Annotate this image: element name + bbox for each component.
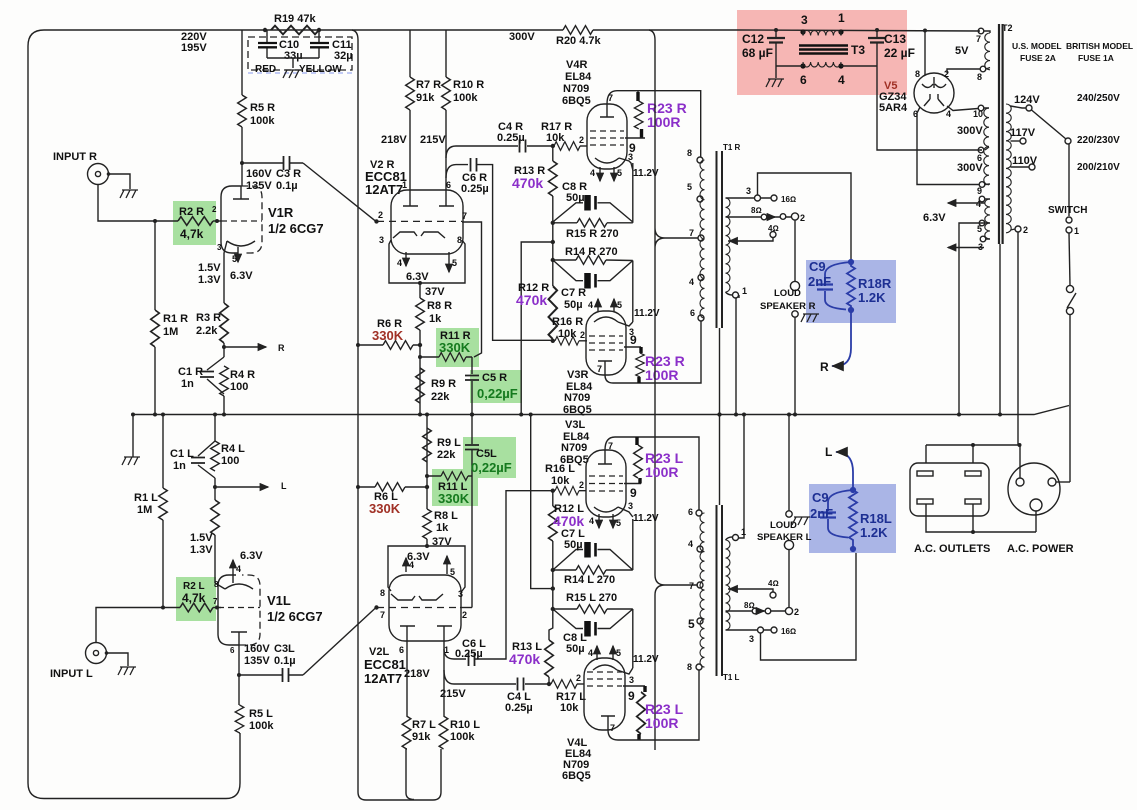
T1L primary terminals — [696, 510, 702, 516]
V1L heater pin4 arrow up — [232, 560, 234, 583]
arrows between L — [758, 610, 764, 612]
arrows between — [768, 216, 775, 218]
svg-text:1M: 1M — [163, 326, 178, 338]
svg-text:6.3V: 6.3V — [230, 270, 253, 282]
node dot R19 left — [263, 28, 267, 32]
svg-text:N709: N709 — [564, 392, 590, 404]
svg-text:330K: 330K — [372, 328, 404, 343]
svg-text:C3 R: C3 R — [276, 168, 301, 180]
svg-text:6: 6 — [688, 507, 693, 517]
highlight box green R11L — [432, 469, 478, 506]
T1R primary coil — [700, 160, 705, 318]
wire R7R column — [409, 30, 411, 190]
svg-text:1/2 6CG7: 1/2 6CG7 — [267, 609, 323, 624]
node dot R junction — [222, 345, 226, 349]
svg-text:6.3V: 6.3V — [406, 271, 429, 283]
svg-text:C12: C12 — [742, 32, 764, 46]
wire C12 to pin6 + ground — [776, 66, 803, 78]
ground symbol speaker L — [792, 517, 810, 525]
capacitor C4L 0.25u — [518, 678, 524, 691]
node dot jack right — [107, 172, 111, 176]
svg-text:6BQ5: 6BQ5 — [563, 404, 592, 416]
wire 8ohm row — [726, 216, 792, 218]
highlight box blue C9/R18R right channel — [806, 260, 896, 323]
wire riser pin7 to R11R/C5R — [462, 222, 482, 357]
svg-text:5: 5 — [977, 224, 982, 234]
ground symbol input L — [118, 667, 136, 675]
wire 8ohm row L — [726, 610, 786, 612]
node dot bus C5L — [470, 413, 474, 417]
svg-text:195V: 195V — [181, 42, 207, 54]
svg-text:4: 4 — [838, 73, 845, 87]
resistor R23R 100R (V3R) — [636, 353, 645, 377]
outer border left: top rail, left border, bottom border — [28, 30, 242, 799]
svg-text:6: 6 — [230, 646, 235, 655]
V4L grids dashed — [587, 672, 622, 686]
resistor R10L 100k — [439, 716, 448, 749]
node dot y242 — [551, 240, 555, 244]
V2L cathode box above — [388, 546, 465, 591]
bowtie1L C8L diagonals — [553, 609, 633, 629]
node dot bus 719 — [718, 413, 722, 417]
svg-text:R3 R: R3 R — [196, 312, 221, 324]
circle 4ohm L — [770, 592, 776, 598]
wire jog to x521 — [521, 242, 553, 415]
wire pin9 V4R — [625, 137, 645, 139]
wire 4ohm tap L — [728, 589, 773, 592]
svg-text:2: 2 — [579, 480, 584, 490]
svg-text:4Ω: 4Ω — [768, 579, 779, 588]
wire cathode to R3L column — [214, 535, 216, 583]
svg-text:4: 4 — [976, 199, 981, 209]
node dots on rail in pink box — [774, 28, 778, 32]
node R23R top on rail — [637, 91, 639, 92]
resistor R9R 22k — [416, 368, 425, 403]
V2L plate right — [437, 626, 452, 641]
capacitor C10 33u — [266, 30, 268, 58]
svg-text:110V: 110V — [1012, 155, 1038, 167]
T1L primary coil — [700, 513, 705, 667]
wire R12L top to R16L row — [552, 491, 554, 506]
wire R11R row — [420, 356, 472, 358]
svg-text:16Ω: 16Ω — [781, 195, 796, 204]
svg-text:4,7k: 4,7k — [182, 591, 206, 605]
wire R13L to bow1L — [549, 609, 553, 640]
svg-text:11.2V: 11.2V — [633, 513, 659, 524]
speaker R ground terminal — [792, 311, 798, 317]
V2R plate left — [403, 190, 418, 206]
svg-text:R9 L: R9 L — [437, 437, 461, 449]
svg-text:R10 L: R10 L — [450, 719, 480, 731]
svg-text:6.3V: 6.3V — [240, 550, 263, 562]
bowtie2L C7L diagonals — [553, 550, 633, 571]
wire R3L to junction — [214, 478, 216, 500]
svg-text:8: 8 — [687, 662, 692, 672]
svg-text:160V: 160V — [246, 168, 272, 180]
svg-text:R15 L 270: R15 L 270 — [566, 592, 617, 604]
blue dashed underline — [248, 72, 352, 74]
wire V4R pin3 riser — [632, 163, 634, 223]
svg-text:C7 R: C7 R — [561, 287, 586, 299]
V2R plate right — [439, 190, 454, 206]
svg-text:4,7k: 4,7k — [180, 227, 204, 241]
node dot C4L/R17L junction — [547, 682, 551, 686]
tube V2L envelope — [389, 575, 461, 641]
svg-text:N709: N709 — [561, 442, 587, 454]
svg-text:220/230V: 220/230V — [1077, 135, 1120, 146]
svg-text:7: 7 — [380, 610, 385, 620]
svg-text:2: 2 — [378, 210, 383, 220]
heater arrow pin3 — [948, 247, 984, 249]
svg-text:R2 R: R2 R — [179, 206, 204, 218]
resistor R4L 100 — [211, 441, 220, 471]
resistor R4R 100 — [220, 366, 229, 396]
svg-text:6: 6 — [446, 180, 451, 190]
svg-text:0.1µ: 0.1µ — [276, 180, 298, 192]
svg-text:C1 R: C1 R — [178, 366, 203, 378]
svg-text:1n: 1n — [181, 378, 194, 390]
svg-text:3: 3 — [379, 235, 384, 245]
svg-text:7: 7 — [597, 364, 602, 374]
node dot R19 right — [317, 28, 321, 32]
svg-text:5V: 5V — [955, 45, 969, 57]
AC power connector circle — [1008, 463, 1060, 515]
wire R10R column — [445, 30, 447, 190]
svg-text:135V: 135V — [244, 655, 270, 667]
svg-text:R18L: R18L — [860, 511, 892, 526]
V2R cathode box — [389, 240, 465, 283]
svg-text:100: 100 — [221, 455, 239, 467]
V4R grids dashed — [590, 131, 624, 145]
svg-text:C9: C9 — [812, 490, 829, 505]
wire input L signal — [96, 608, 180, 643]
svg-text:100: 100 — [230, 381, 248, 393]
resistor R2R 4.7k — [178, 217, 213, 226]
wire R8L to node N2 — [426, 415, 428, 510]
resistor R18R 1.2K — [847, 262, 855, 310]
wire diagonal C3L to V2L grid — [303, 608, 376, 676]
resistor R17L 10k — [551, 680, 577, 689]
capacitor C1L 1n with slants — [198, 441, 215, 478]
V3L cathode arc bottom — [594, 507, 618, 512]
node dot bus 744 — [742, 413, 746, 417]
wire GZ34 pin2 to xfmr pin8 — [947, 69, 980, 73]
V1R cathode pin3 lead — [224, 241, 227, 253]
highlight box green R2L — [176, 577, 216, 621]
V1L cathode arc — [225, 584, 253, 589]
capacitor C11 32u — [318, 30, 320, 58]
svg-text:12AT7: 12AT7 — [365, 182, 403, 197]
svg-text:7: 7 — [610, 723, 615, 733]
node dot y588 — [551, 586, 555, 590]
AC power right pin to switch line — [1056, 481, 1070, 483]
node dot bottom blue — [849, 308, 853, 312]
T3 pin3/1 stubs to rail — [803, 30, 841, 36]
capacitor C7R 50u electrolytic — [584, 273, 591, 289]
V2L plate left — [400, 626, 415, 641]
svg-text:6BQ5: 6BQ5 — [562, 770, 591, 782]
svg-text:R: R — [820, 360, 829, 374]
svg-text:6: 6 — [399, 645, 404, 655]
svg-text:2.2k: 2.2k — [196, 325, 218, 337]
svg-text:9: 9 — [977, 186, 982, 196]
svg-text:12AT7: 12AT7 — [364, 671, 402, 686]
tap 117V — [1011, 140, 1021, 142]
svg-text:C1 L: C1 L — [170, 448, 194, 460]
svg-text:R7 R: R7 R — [416, 79, 441, 91]
svg-text:5: 5 — [617, 300, 622, 310]
wire 4ohm tap — [728, 238, 773, 241]
svg-text:2nF: 2nF — [808, 274, 831, 289]
svg-text:SWITCH: SWITCH — [1048, 205, 1087, 216]
V3R heater arrows up — [597, 299, 599, 312]
svg-text:FUSE 2A: FUSE 2A — [1020, 53, 1056, 63]
circles 8ohm row — [761, 214, 767, 220]
svg-text:135V: 135V — [246, 180, 272, 192]
svg-text:4: 4 — [236, 564, 241, 574]
V3L plate wire to T1L pin6 — [605, 437, 699, 510]
GZ34 filament arcs — [922, 77, 946, 88]
svg-text:C3L: C3L — [274, 643, 295, 655]
svg-text:218V: 218V — [404, 668, 430, 680]
node dot bus core — [998, 413, 1002, 417]
switch symbol — [1066, 285, 1073, 292]
svg-text:0,22µF: 0,22µF — [471, 460, 512, 475]
svg-text:3: 3 — [628, 152, 633, 162]
transformer T3 terminals — [800, 29, 805, 34]
node dot bus speaker R — [793, 413, 797, 417]
capacitor C12 68uF — [775, 30, 777, 66]
svg-text:100k: 100k — [249, 720, 274, 732]
svg-text:2: 2 — [800, 213, 805, 223]
svg-text:300V: 300V — [957, 125, 983, 137]
V4R cathode arc — [595, 158, 619, 163]
circle 16ohm terminal — [771, 195, 777, 201]
svg-text:240/250V: 240/250V — [1077, 93, 1120, 104]
svg-text:100k: 100k — [250, 115, 275, 127]
capacitor C1R 1n with slants — [207, 357, 224, 394]
node dot bus speaker L — [787, 413, 791, 417]
svg-text:470k: 470k — [516, 292, 547, 308]
resistor R6L 330K — [375, 483, 405, 492]
svg-text:1k: 1k — [429, 313, 442, 325]
circle tap3 L — [758, 627, 764, 633]
svg-text:7: 7 — [689, 581, 694, 591]
bowtie2 C7R diagonals — [553, 260, 633, 281]
svg-text:2: 2 — [580, 330, 585, 340]
svg-text:7: 7 — [213, 597, 218, 606]
svg-text:10k: 10k — [560, 702, 579, 714]
resistor R13R 470k — [552, 146, 554, 161]
svg-text:V3R: V3R — [567, 369, 588, 381]
T1L core — [717, 505, 723, 676]
svg-text:16Ω: 16Ω — [781, 627, 796, 636]
svg-text:V4R: V4R — [566, 59, 587, 71]
resistor R7L 91k — [402, 716, 411, 749]
svg-text:8Ω: 8Ω — [751, 206, 762, 215]
node dot 1019 y445 — [1018, 443, 1022, 447]
resistor R13L 470k — [548, 677, 550, 684]
V1L grid dashed — [218, 607, 260, 609]
svg-text:N709: N709 — [563, 83, 589, 95]
wire box to R8R — [419, 283, 421, 298]
svg-text:C9: C9 — [809, 259, 826, 274]
AC outlets box — [910, 463, 989, 516]
tube V1R envelope left solid — [221, 186, 241, 253]
resistor R11R 330K — [439, 353, 466, 362]
T2 primary terminals — [978, 28, 984, 34]
svg-text:160V: 160V — [244, 643, 270, 655]
svg-text:11.2V: 11.2V — [634, 308, 660, 319]
svg-text:470k: 470k — [553, 513, 584, 529]
node dot 973 y532 — [971, 530, 975, 534]
wire 16ohm tap row — [726, 197, 772, 199]
bowtie1 C8R/R15R left diag — [553, 203, 633, 222]
svg-text:470k: 470k — [509, 651, 540, 667]
resistor R23R 100R (V4R) — [634, 101, 643, 129]
wire speaker gnd to bus — [794, 317, 796, 415]
svg-text:6BQ5: 6BQ5 — [562, 95, 591, 107]
svg-text:215V: 215V — [420, 134, 446, 146]
svg-text:10k: 10k — [551, 475, 570, 487]
wire GZ34 pin4 to pin10 row — [947, 106, 978, 111]
node dot R11L left — [425, 474, 429, 478]
svg-text:R4 R: R4 R — [230, 369, 255, 381]
svg-text:1: 1 — [402, 180, 407, 190]
svg-text:50µ: 50µ — [564, 299, 583, 311]
svg-text:0.1µ: 0.1µ — [274, 655, 296, 667]
wire C6R from anode6 — [446, 165, 553, 341]
svg-text:8: 8 — [977, 72, 982, 82]
capacitor C6R 0.25u — [471, 158, 477, 172]
node dot bus x521 — [519, 413, 523, 417]
R23L V3L thick leads — [637, 437, 640, 484]
svg-text:LOUD: LOUD — [774, 288, 801, 299]
wire V4L pin3 riser — [632, 609, 634, 668]
svg-text:6BQ5: 6BQ5 — [560, 454, 589, 466]
svg-text:1: 1 — [742, 286, 747, 296]
node dot V1L grid pin7 — [215, 606, 219, 610]
svg-text:V1L: V1L — [267, 593, 291, 608]
circle 4ohm — [770, 232, 776, 238]
capacitor C6L 0.25u — [469, 653, 475, 667]
speaker L ground terminal — [786, 511, 792, 517]
V1L plate — [231, 632, 247, 645]
R23R V4R thick leads — [638, 92, 642, 139]
svg-text:117V: 117V — [1010, 127, 1036, 139]
svg-text:R18R: R18R — [858, 276, 892, 291]
svg-text:3: 3 — [217, 243, 222, 252]
svg-text:330K: 330K — [439, 340, 471, 355]
svg-text:R1 R: R1 R — [163, 313, 188, 325]
resistor R5R 100k — [238, 95, 247, 127]
resistor R16R 10k — [553, 340, 587, 342]
wire C10/C11 bottoms join — [267, 58, 319, 68]
node dot V2L pin7 — [374, 605, 378, 609]
svg-text:R4 L: R4 L — [221, 443, 245, 455]
V4L plate — [601, 716, 615, 730]
node dot R16R junction — [551, 339, 555, 343]
wire V2L pin2 stub to riser — [460, 607, 472, 609]
wire V1L plate down to C3L junction — [238, 645, 240, 675]
V3L plate — [598, 450, 612, 464]
selector diagonal — [1032, 110, 1067, 139]
wire speaker R drop from 2 terminal — [794, 220, 796, 281]
AC power bottom pin to y532 — [1035, 511, 1037, 532]
svg-text:R20 4.7k: R20 4.7k — [556, 35, 602, 47]
svg-text:11.2V: 11.2V — [633, 654, 659, 665]
svg-text:100R: 100R — [645, 367, 678, 383]
svg-text:R19 47k: R19 47k — [274, 13, 316, 25]
svg-text:1: 1 — [741, 527, 746, 537]
outlet slots — [917, 471, 933, 476]
svg-text:8: 8 — [380, 588, 385, 598]
wire C3L — [239, 674, 303, 676]
svg-text:R: R — [278, 343, 285, 353]
V2R grid dashed — [377, 220, 462, 222]
svg-text:330K: 330K — [438, 491, 470, 506]
wire box to R8L — [426, 539, 428, 546]
svg-text:1.2K: 1.2K — [858, 290, 886, 305]
T2 primary coil sections — [985, 33, 990, 70]
center ground bus — [133, 406, 1069, 415]
V2R cathode curves — [393, 232, 445, 238]
node dot bus R4L — [213, 413, 217, 417]
wire R7L column — [406, 641, 407, 749]
T2 core — [999, 24, 1003, 244]
T1R core ground drop — [719, 328, 721, 415]
wire pin1 bottom tap — [726, 292, 740, 415]
wire R4R to bus — [223, 396, 225, 415]
svg-text:100k: 100k — [453, 92, 478, 104]
wire jog to x530 — [531, 415, 553, 589]
node dot V2R pin2 — [374, 219, 378, 223]
svg-text:R15 R 270: R15 R 270 — [566, 228, 619, 240]
tube V1L envelope right dashed — [239, 575, 260, 645]
V3R pin3 lead — [618, 322, 633, 326]
svg-text:1.3V: 1.3V — [198, 274, 221, 286]
wire R5R to V1R anode — [241, 127, 243, 186]
wire to L arrow — [836, 452, 853, 490]
capacitor C3L 0.1u — [283, 668, 289, 682]
svg-text:7: 7 — [608, 441, 613, 451]
node dot C3R junction — [240, 161, 244, 165]
svg-text:L: L — [281, 481, 287, 491]
svg-text:V3L: V3L — [565, 419, 585, 431]
wire R5L column — [239, 675, 240, 733]
dashed box C10 C11 — [248, 37, 352, 70]
svg-text:91k: 91k — [412, 731, 431, 743]
svg-text:SPEAKER L: SPEAKER L — [757, 532, 812, 543]
blue network C9/R18L — [820, 452, 857, 551]
T1L secondary coil — [726, 540, 731, 630]
svg-text:1k: 1k — [436, 522, 449, 534]
tube V1R envelope right dashed — [241, 186, 262, 253]
highlight box green C5L — [463, 437, 516, 478]
svg-text:4: 4 — [588, 300, 593, 310]
capacitor C8L 50u electrolytic — [584, 621, 591, 637]
feedback wire from tap3 up and right — [758, 173, 852, 262]
wire 16ohm row L — [726, 629, 772, 631]
resistor R15R 270 row — [553, 222, 633, 224]
V2L heater leads arrows up — [405, 558, 407, 572]
svg-text:1.3V: 1.3V — [190, 544, 213, 556]
svg-text:A.C. OUTLETS: A.C. OUTLETS — [914, 543, 990, 555]
V4L heater arrows up — [596, 646, 598, 660]
wire R17L to V4L pin2 — [577, 683, 584, 685]
capacitor C9 R — [825, 262, 851, 310]
V1R cathode arc — [227, 241, 255, 246]
